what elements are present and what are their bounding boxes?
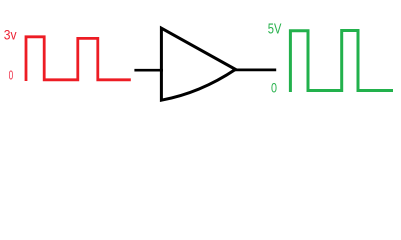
wire: output lead from buffer bbox=[235, 69, 277, 72]
wire: input lead to buffer bbox=[134, 69, 163, 72]
output waveform: green 5V square wave bbox=[290, 31, 393, 93]
svg-text:0: 0 bbox=[271, 79, 277, 95]
buffer U1 (triangle amplifier symbol) bbox=[161, 28, 235, 100]
svg-text:3v: 3v bbox=[4, 28, 17, 43]
svg-text:5V: 5V bbox=[268, 20, 282, 37]
svg-text:0: 0 bbox=[9, 67, 14, 82]
input waveform: red 3V square wave bbox=[26, 37, 131, 81]
